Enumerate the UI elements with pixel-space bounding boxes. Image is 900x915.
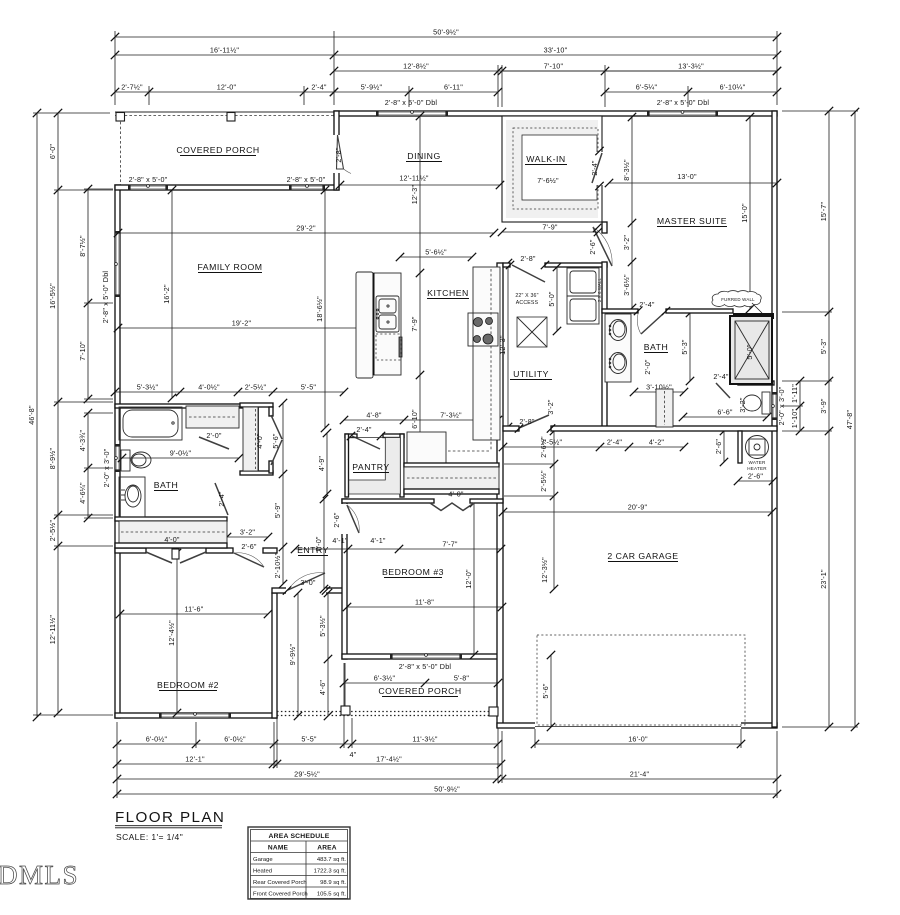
dim master wall 8'-3 1/2 / 3'-2 / 3'-6 1/2 (rot)	[631, 117, 633, 308]
door mudroom->garage leaf	[519, 415, 549, 428]
dim chain top row2 16'-11 1/2" / 33'-10"	[115, 54, 777, 56]
svg-text:4'-9": 4'-9"	[317, 456, 326, 472]
svg-text:5'-0": 5'-0"	[745, 344, 754, 360]
wall garage north y426	[503, 426, 519, 431]
dim chain left col1 46'-8	[36, 113, 38, 717]
svg-text:4'-3¾": 4'-3¾"	[78, 430, 87, 452]
kitchen island bar	[356, 272, 373, 378]
dim chain top row1 50'-9 1/2"	[115, 36, 777, 38]
svg-text:5'-6": 5'-6"	[541, 683, 550, 699]
svg-text:12'-3": 12'-3"	[498, 335, 507, 355]
porch post top-mid	[227, 113, 235, 122]
svg-text:50'-9½": 50'-9½"	[433, 27, 459, 36]
bifold closet doors bed2	[146, 552, 172, 563]
svg-text:8'-9½": 8'-9½"	[48, 448, 57, 470]
dim bed3 hall 4'-1 4'-1 7'-7	[295, 548, 501, 550]
dim interior 12'-3 dining + 7'-9 island + 6'-10 (rot chain)	[419, 116, 421, 463]
wall toilet nook master	[738, 381, 774, 385]
dim chain right colB 47'-8	[854, 112, 856, 727]
wall family/bath divider	[115, 404, 247, 408]
svg-text:29'-5½": 29'-5½"	[294, 769, 320, 778]
dim interior 29'-2 family/dining width	[118, 232, 494, 234]
svg-text:4'-1": 4'-1"	[332, 536, 348, 545]
bottom extension lines	[116, 722, 118, 798]
svg-text:Garage: Garage	[253, 857, 273, 863]
svg-text:2'-4": 2'-4"	[356, 425, 372, 434]
svg-text:4'-0½": 4'-0½"	[198, 382, 220, 391]
svg-text:12'-11½": 12'-11½"	[399, 174, 429, 183]
dim interior 15'-0 master height (rot)	[749, 117, 751, 309]
svg-text:BATH: BATH	[154, 480, 179, 490]
dim bed2 11'-6	[120, 613, 268, 615]
svg-text:7'-10": 7'-10"	[544, 61, 564, 70]
wall mudroom mid	[404, 463, 499, 467]
svg-text:6'-5¼": 6'-5¼"	[636, 82, 658, 91]
svg-text:3'-6½": 3'-6½"	[622, 274, 631, 296]
svg-text:UTILITY: UTILITY	[513, 369, 549, 379]
svg-text:1722.3 sq ft.: 1722.3 sq ft.	[314, 869, 347, 875]
dim chain left col2 6'-0 16'-5 1/2 8'-9 1/2 2'-5 1/2 12'-11 1/2	[57, 113, 59, 713]
svg-text:2 X 6 WALL: 2 X 6 WALL	[597, 277, 602, 302]
svg-text:5'-0": 5'-0"	[547, 291, 556, 307]
svg-text:12'-11½": 12'-11½"	[48, 615, 57, 645]
dim right small 1'-11 / 1'-10	[799, 381, 801, 431]
svg-text:2'-0": 2'-0"	[206, 431, 222, 440]
svg-text:2'-8" x 5'-0": 2'-8" x 5'-0"	[287, 175, 326, 184]
svg-text:98.9 sq ft.: 98.9 sq ft.	[320, 880, 346, 886]
wall bed2 north	[115, 548, 146, 553]
window porch-family 2'-8x5'-0 (east)	[290, 185, 324, 190]
wall bath north y309	[602, 309, 638, 313]
svg-text:ACCESS: ACCESS	[516, 300, 539, 306]
dim entry 7'-0 (rot)	[323, 499, 325, 589]
window porch-family 2'-8x5'-0 (west)	[129, 185, 167, 190]
svg-text:5'-3½": 5'-3½"	[137, 382, 159, 391]
water heater	[746, 436, 769, 459]
window right toilet 2'-0x3'-0	[772, 393, 777, 419]
wall WH closet	[738, 431, 742, 463]
svg-text:7'-10": 7'-10"	[78, 341, 87, 361]
door small closet leaf	[199, 437, 229, 449]
svg-text:12'-3": 12'-3"	[410, 185, 419, 205]
svg-text:AREA SCHEDULE: AREA SCHEDULE	[269, 833, 330, 840]
svg-text:9'-9½": 9'-9½"	[288, 644, 297, 666]
shower master	[730, 316, 772, 384]
svg-text:4'-8": 4'-8"	[366, 410, 382, 419]
svg-text:3'-2": 3'-2"	[240, 527, 256, 536]
linen closet master bath	[656, 389, 673, 427]
dim porch 9'-9 1/2 (rot)	[297, 593, 299, 716]
svg-text:Heated: Heated	[253, 869, 272, 875]
svg-text:2'-8": 2'-8"	[334, 147, 343, 163]
svg-text:2'-4": 2'-4"	[639, 300, 655, 309]
dim bed3 12'-0 (rot)	[473, 503, 475, 655]
svg-text:2'-6": 2'-6"	[588, 239, 597, 255]
dim bath 3'-10 1/2	[634, 391, 684, 393]
svg-text:Front Covered Porch: Front Covered Porch	[253, 892, 308, 898]
dim chain top row3 12'-8 1/2" 7'-10" 13'-3 1/2"	[334, 70, 777, 72]
svg-text:2'-8" x 5'-0": 2'-8" x 5'-0"	[129, 175, 168, 184]
wall utility east x602 (stub + lower)	[602, 222, 607, 233]
dim bed3 11'-8	[347, 606, 502, 608]
dim bath 6'-6	[683, 416, 767, 418]
svg-text:2'-6": 2'-6"	[714, 439, 723, 455]
entry closet double doors V	[271, 415, 282, 439]
wall bath/closet divider south	[115, 517, 227, 521]
covered porch top slab edge	[115, 111, 334, 113]
dim interior 12'-3 utility (rot)	[507, 263, 509, 427]
svg-text:12'-1": 12'-1"	[185, 754, 205, 763]
entry closet shelf	[243, 407, 258, 471]
svg-text:47'-8": 47'-8"	[845, 410, 854, 430]
svg-text:5'-5": 5'-5"	[301, 734, 317, 743]
svg-text:7'-5½": 7'-5½"	[541, 437, 563, 446]
svg-text:6'-6": 6'-6"	[717, 407, 733, 416]
svg-text:5'-3½": 5'-3½"	[318, 615, 327, 637]
dim chain bottom row2 12'-1 / 17'-4 1/2	[117, 763, 501, 765]
svg-text:2'-4": 2'-4"	[713, 372, 729, 381]
svg-text:6'-3½": 6'-3½"	[374, 673, 396, 682]
porch post top-left	[116, 113, 125, 122]
door toilet nook	[716, 383, 730, 398]
svg-text:AREA: AREA	[317, 845, 337, 852]
svg-text:BEDROOM #2: BEDROOM #2	[157, 680, 219, 690]
exterior wall garage south	[497, 723, 777, 728]
svg-text:PANTRY: PANTRY	[352, 462, 389, 472]
dim interior 5'-6 1/2 kitchen aisle	[400, 256, 472, 258]
dim hall 3'-2	[227, 536, 268, 538]
svg-text:46'-8": 46'-8"	[27, 405, 36, 425]
bath vanity closet top	[186, 406, 239, 428]
dim closet/hall chain 5'-9 2'-10 1/2 (rot)	[282, 403, 284, 584]
svg-text:12'-8½": 12'-8½"	[403, 61, 429, 70]
window master top 2'-8x5'-0 dbl	[648, 111, 717, 116]
svg-text:2'-6": 2'-6"	[332, 512, 341, 528]
door bed2 leaf+arc	[234, 553, 264, 567]
door bed3 from hall	[341, 504, 348, 534]
svg-text:Rear Covered Porch: Rear Covered Porch	[253, 880, 307, 886]
dim mud hall 4'-9 (rot)	[326, 433, 328, 494]
right extension lines	[782, 110, 858, 112]
svg-text:15'-0": 15'-0"	[740, 203, 749, 223]
dim WH 2'-6 bottom	[738, 480, 773, 482]
svg-text:21'-4": 21'-4"	[630, 769, 650, 778]
svg-text:105.5 sq ft.: 105.5 sq ft.	[317, 892, 347, 898]
svg-text:4'-1": 4'-1"	[370, 536, 386, 545]
svg-text:9'-0½": 9'-0½"	[170, 448, 192, 457]
toilet hall bath	[121, 450, 130, 471]
window left bath wall	[115, 445, 120, 471]
svg-text:17'-4½": 17'-4½"	[376, 754, 402, 763]
svg-text:3'-2": 3'-2"	[622, 235, 631, 251]
kitchen double sink	[376, 296, 399, 332]
svg-text:COVERED PORCH: COVERED PORCH	[176, 145, 259, 155]
dim garage 20'-9	[503, 511, 772, 513]
dim garage door 16'-0	[535, 743, 741, 745]
svg-text:4'-6": 4'-6"	[318, 680, 327, 696]
svg-text:COVERED PORCH: COVERED PORCH	[378, 686, 461, 696]
wall bed3 north	[342, 499, 434, 503]
wall mudroom south	[404, 489, 499, 494]
svg-text:1'-11": 1'-11"	[790, 384, 799, 403]
svg-text:5'-3": 5'-3"	[680, 339, 689, 355]
svg-text:22" X 36": 22" X 36"	[515, 293, 538, 299]
svg-text:5'-6": 5'-6"	[271, 433, 280, 449]
range cooktop	[468, 313, 498, 346]
svg-text:4": 4"	[350, 750, 357, 759]
dim WH 2'-6 (rot)	[723, 431, 725, 462]
door utility leaf	[512, 265, 545, 282]
svg-text:2'-8" x 5'-0" Dbl: 2'-8" x 5'-0" Dbl	[657, 98, 710, 107]
svg-text:4'-2": 4'-2"	[649, 437, 665, 446]
svg-text:50'-9½": 50'-9½"	[434, 784, 460, 793]
garage door opening	[535, 722, 741, 729]
svg-text:WALK-IN: WALK-IN	[526, 154, 565, 164]
door master->bath leaf	[641, 313, 664, 334]
svg-text:16'-2": 16'-2"	[162, 284, 171, 304]
svg-text:MASTER SUITE: MASTER SUITE	[657, 216, 727, 226]
dim bath 5'-3 (rot)	[689, 313, 691, 381]
svg-text:29'-2": 29'-2"	[296, 223, 316, 232]
dim chain right colA 15'-7 5'-3 3'-9 23'-1	[828, 111, 830, 727]
dim chain bottom row1 6'-0 1/2 x2, 5'-5, 11'-3 1/2	[117, 743, 498, 745]
dim interior 13'-0 master width	[609, 182, 777, 184]
walk-in closet box	[502, 116, 602, 222]
svg-text:2'-7½": 2'-7½"	[121, 82, 143, 91]
svg-text:NAME: NAME	[268, 845, 289, 852]
svg-text:HEATER: HEATER	[747, 466, 767, 471]
wall utility north + door	[503, 263, 510, 267]
dim kitchen bottom 4'-8 / 7'-3 1/2	[344, 419, 498, 421]
svg-text:BEDROOM #3: BEDROOM #3	[382, 567, 444, 577]
dim bath 9'-0 1/2	[122, 457, 239, 459]
mudroom closet strip	[404, 467, 499, 489]
bed2 closet shelf	[119, 521, 227, 543]
toilet master	[762, 392, 770, 414]
pantry door leaf	[352, 436, 380, 449]
svg-text:DMLS: DMLS	[0, 860, 79, 890]
svg-text:8'-7½": 8'-7½"	[78, 235, 87, 257]
window dining top 2'-8x5'-0 dbl	[377, 111, 447, 116]
svg-text:2'-4": 2'-4"	[311, 82, 327, 91]
dim utility 5'-0 rot	[556, 267, 558, 331]
svg-text:2'-4": 2'-4"	[607, 437, 623, 446]
svg-text:5'-5": 5'-5"	[301, 382, 317, 391]
svg-text:4'-0": 4'-0"	[255, 433, 264, 449]
washer dryer	[567, 268, 599, 296]
svg-text:13'-3½": 13'-3½"	[678, 61, 704, 70]
svg-text:11'-3½": 11'-3½"	[412, 734, 437, 743]
svg-text:483.7 sq ft.: 483.7 sq ft.	[317, 857, 347, 863]
dim garage 12'-3 1/2 (rot)	[553, 431, 555, 589]
svg-text:5'-9": 5'-9"	[273, 503, 282, 519]
svg-text:16'-5½": 16'-5½"	[48, 283, 57, 309]
svg-text:4'-0": 4'-0"	[164, 535, 180, 544]
dim garage 5'-6 (rot)	[550, 655, 552, 727]
window bedroom3 south 2'-8x5'-0 dbl	[391, 654, 461, 659]
exterior wall garage west	[497, 263, 503, 727]
svg-text:2'-4": 2'-4"	[217, 491, 226, 507]
svg-text:2'-5½": 2'-5½"	[48, 520, 57, 542]
exterior wall entry/bed3 west	[342, 499, 347, 659]
svg-text:6'-10": 6'-10"	[410, 409, 419, 429]
svg-text:11'-8": 11'-8"	[415, 597, 434, 606]
svg-text:12'-4½": 12'-4½"	[167, 620, 176, 646]
furred wall (solid)	[733, 313, 774, 319]
porch bottom slab dotted edge	[277, 711, 489, 713]
exterior wall front-door (entry south)	[272, 588, 344, 593]
dim interior 18'-6 1/2 (rot)	[324, 190, 326, 428]
svg-text:5'-8": 5'-8"	[454, 673, 470, 682]
dim chain top row4 right 6'-5 1/4" 6'-10 1/4"	[605, 91, 777, 93]
left extension lines	[33, 112, 110, 114]
porch post bottom-right	[489, 707, 498, 716]
svg-text:16'-11½": 16'-11½"	[210, 45, 240, 54]
svg-text:FAMILY ROOM: FAMILY ROOM	[197, 262, 262, 272]
svg-text:5'-6½": 5'-6½"	[425, 247, 447, 256]
svg-text:16'-0": 16'-0"	[628, 734, 648, 743]
svg-text:3'-2": 3'-2"	[546, 399, 555, 415]
svg-text:BATH: BATH	[644, 342, 669, 352]
porch post bottom-left	[341, 706, 350, 715]
svg-text:7'-9": 7'-9"	[542, 222, 558, 231]
svg-text:2 CAR GARAGE: 2 CAR GARAGE	[607, 551, 678, 561]
svg-text:2'-6": 2'-6"	[241, 542, 257, 551]
dim interior 16'-2 family height (rot)	[171, 190, 173, 398]
dim chain bottom row3 29'-5 1/2 / 21'-4	[117, 778, 497, 780]
sink vanity hall bath	[119, 477, 145, 517]
wall porch south / family room north	[115, 185, 339, 190]
dim bath row 5'-3 1/2 4'-0 1/2 2'-5 1/2 5'-5	[115, 391, 344, 393]
garage door dashed track	[537, 635, 745, 725]
svg-text:2'-5½": 2'-5½"	[245, 382, 267, 391]
svg-text:20'-9": 20'-9"	[628, 502, 648, 511]
dim chain left col3 8'-7 1/2 7'-10 4'-3 3/4 4'-6 1/4	[87, 189, 89, 399]
corridor door to master hall	[593, 227, 612, 266]
svg-text:3'-2": 3'-2"	[738, 397, 747, 413]
svg-text:6'-0½": 6'-0½"	[224, 734, 246, 743]
front door porch->dining leaf	[337, 135, 344, 169]
bifold doors bed3	[430, 503, 474, 511]
svg-text:KITCHEN: KITCHEN	[427, 288, 469, 298]
dim chain top row4 left 2'-7 1/2" 12'-0" 2'-4"	[115, 91, 334, 93]
dim interior 19'-2	[118, 327, 365, 329]
svg-text:5'-9½": 5'-9½"	[361, 82, 383, 91]
svg-text:2'-10½": 2'-10½"	[273, 552, 282, 578]
dim porch bottom 6'-3 1/2 5'-8	[344, 682, 498, 684]
dishwasher dashed	[376, 334, 401, 360]
dim chain bottom row4 50'-9 1/2	[117, 793, 777, 795]
svg-text:3'-9": 3'-9"	[819, 398, 828, 414]
master bath vanity double	[605, 314, 631, 382]
svg-text:2'-8" x 5'-0" Dbl: 2'-8" x 5'-0" Dbl	[385, 98, 438, 107]
furred wall cloud label	[712, 291, 761, 307]
exterior wall bedroom2 east	[272, 593, 277, 718]
top extension lines	[114, 31, 116, 105]
svg-text:WATER: WATER	[748, 460, 766, 465]
svg-text:7'-6½": 7'-6½"	[537, 176, 559, 185]
svg-text:2'-8" x 5'-0" Dbl: 2'-8" x 5'-0" Dbl	[399, 662, 452, 671]
exterior wall right	[772, 111, 777, 727]
dim mudroom wall 7'-5 1/2 2'-4 4'-2	[503, 446, 684, 448]
wall pantry	[345, 434, 357, 438]
exterior wall left	[115, 185, 120, 718]
svg-text:6'-0½": 6'-0½"	[146, 734, 168, 743]
dim chain top row4 mid 5'-9 1/2" 6'-11"	[334, 91, 498, 93]
dim interior 12'-11 1/2 dining	[340, 184, 500, 186]
entry closet walls	[240, 403, 273, 407]
svg-text:11'-6": 11'-6"	[185, 604, 204, 613]
kitchen east counter + fridge	[473, 267, 500, 440]
dim bed2 12'-4 1/2 (rot)	[176, 553, 178, 713]
svg-text:2'-8": 2'-8"	[520, 254, 536, 263]
svg-text:13'-0": 13'-0"	[677, 172, 697, 181]
front door leaf and swing	[288, 573, 325, 590]
wall porch/dining divider	[334, 111, 339, 190]
svg-text:23'-1": 23'-1"	[819, 569, 828, 589]
mudroom bench counter	[407, 432, 446, 463]
svg-text:2'-8": 2'-8"	[519, 417, 535, 426]
window bedroom2 south	[160, 713, 230, 718]
svg-text:FLOOR PLAN: FLOOR PLAN	[115, 809, 225, 826]
svg-text:2'-6": 2'-6"	[748, 471, 764, 480]
pantry shelves U-shape	[349, 438, 401, 495]
svg-text:8'-3½": 8'-3½"	[622, 159, 631, 181]
svg-text:7'-9": 7'-9"	[410, 316, 419, 332]
svg-text:7'-3½": 7'-3½"	[440, 410, 462, 419]
bathtub hall bath	[119, 407, 182, 440]
svg-text:1'-10": 1'-10"	[790, 409, 799, 429]
svg-text:18'-6½": 18'-6½"	[315, 296, 324, 322]
dim interior 7'-9 walkin width	[502, 231, 598, 233]
svg-text:2'-5½": 2'-5½"	[539, 470, 548, 492]
walk-in door on east wall	[596, 152, 603, 185]
svg-text:6'-11": 6'-11"	[444, 82, 463, 91]
exterior wall top (front of house)	[334, 111, 777, 116]
exterior wall bedroom3 south	[342, 654, 500, 659]
svg-text:6'-0": 6'-0"	[48, 144, 57, 160]
window family room left wall	[115, 232, 120, 296]
svg-text:2'-0": 2'-0"	[643, 359, 652, 375]
svg-text:12'-0": 12'-0"	[217, 82, 237, 91]
door bath from hall (angled)	[215, 483, 228, 515]
svg-text:12'-0": 12'-0"	[464, 569, 473, 589]
svg-text:4'-0": 4'-0"	[448, 490, 464, 499]
svg-text:2'-8" x 5'-0" Dbl: 2'-8" x 5'-0" Dbl	[101, 271, 110, 324]
exterior wall bedroom2 south	[115, 713, 277, 718]
dim porch 5'-3 1/2 4'-6 (rot)	[327, 593, 329, 716]
svg-text:SCALE: 1'= 1/4": SCALE: 1'= 1/4"	[116, 832, 183, 842]
svg-text:15'-7": 15'-7"	[819, 202, 828, 222]
svg-text:7'-7": 7'-7"	[442, 539, 458, 548]
svg-text:2'-4": 2'-4"	[590, 160, 599, 176]
svg-text:6'-10¼": 6'-10¼"	[720, 82, 746, 91]
area schedule table	[248, 827, 350, 899]
svg-text:19'-2": 19'-2"	[232, 318, 252, 327]
svg-text:5'-3": 5'-3"	[819, 339, 828, 355]
svg-text:12'-3½": 12'-3½"	[540, 557, 549, 583]
svg-text:4'-6¼": 4'-6¼"	[78, 482, 87, 504]
svg-text:DINING: DINING	[407, 151, 440, 161]
svg-text:33'-10": 33'-10"	[544, 45, 568, 54]
wall bed2 closet front	[115, 543, 227, 548]
svg-text:3'-0": 3'-0"	[300, 578, 316, 587]
svg-text:FURRED WALL: FURRED WALL	[721, 297, 755, 302]
